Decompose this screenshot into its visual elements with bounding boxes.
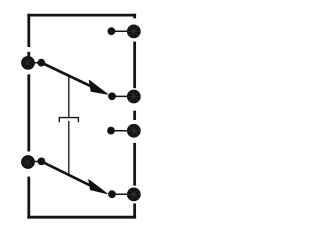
contact stub wire R4 — [112, 193, 134, 195]
contact node R2 (NO 1) — [108, 92, 116, 100]
contact node R4 (NO 2) — [108, 190, 116, 198]
switch pole terminal P2 (common 2) — [21, 155, 35, 169]
contact stub wire R2 — [112, 95, 134, 97]
wire: frame right R1-R2 segment — [133, 42, 136, 89]
wire: frame right R3-R4 segment — [133, 143, 136, 186]
contact stub wire R1 — [111, 30, 133, 32]
contact terminal R1 — [127, 25, 141, 39]
wire: frame top — [27, 14, 136, 17]
wire: frame left upper segment — [27, 14, 30, 57]
switch blade arrow 2 (P2 to contact R4) — [41, 161, 107, 193]
contact terminal R2 — [127, 90, 141, 104]
contact node R3 (NC 2) — [107, 127, 115, 135]
wire: frame right R2-R3 dash — [133, 111, 136, 120]
switch blade arrow 1 (P1 to contact R2) — [41, 63, 107, 95]
blade pivot node S2 — [38, 158, 46, 166]
wire: frame right lower segment — [133, 204, 136, 219]
mechanical linkage line upper — [68, 75, 70, 117]
wire: P1 to blade pivot stub — [28, 62, 41, 64]
switch pole terminal P1 (common 1) — [21, 56, 35, 70]
mechanical linkage bracket — [59, 118, 78, 123]
wire: frame left lower segment — [27, 177, 30, 219]
wire: frame right stub from top corner — [133, 14, 136, 19]
contact node R1 (NC 1) — [108, 27, 116, 35]
contact stub wire R3 — [111, 130, 134, 132]
contact terminal R4 — [127, 188, 141, 202]
mechanical linkage line lower — [68, 121, 70, 175]
wire: P2 to blade pivot stub — [28, 161, 41, 163]
wire: frame left middle segment — [27, 74, 30, 151]
wire: frame bottom — [27, 216, 136, 219]
blade pivot node S1 — [37, 59, 45, 67]
contact terminal R3 — [127, 124, 141, 138]
